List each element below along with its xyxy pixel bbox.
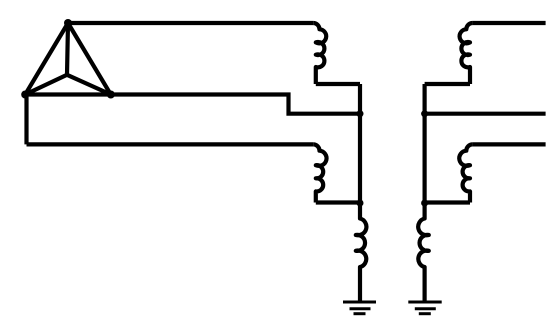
node A (delta top vertex) — [64, 19, 72, 27]
wire phase B middle — [111, 95, 360, 114]
winding L4 (right transformer top winding) — [460, 23, 473, 84]
wire secondary b middle right — [425, 112, 546, 116]
wire secondary a top right — [473, 21, 546, 25]
junction dot right bus upper — [421, 110, 428, 117]
wire phase A top — [68, 21, 313, 25]
wire L1 bottom to bus — [316, 82, 360, 86]
wire L2 bottom to bus — [316, 200, 360, 204]
junction dot left bus lower — [357, 200, 364, 207]
wire L4 bottom to right bus — [425, 82, 470, 86]
node C (delta bottom-left vertex) — [21, 91, 29, 99]
wire left bus vertical — [358, 84, 362, 203]
winding L3 (left grounding winding) — [356, 203, 367, 301]
delta internal spokes — [25, 23, 111, 95]
wire secondary c bottom right — [473, 142, 546, 146]
junction dot left bus / phase B — [357, 110, 364, 117]
winding L2 (left transformer bottom primary) — [313, 144, 326, 202]
winding L6 (right grounding winding) — [418, 203, 429, 301]
node B (delta bottom-right vertex) — [107, 91, 115, 99]
winding L1 (left transformer top primary) — [313, 23, 326, 84]
wire phase C bottom — [27, 93, 314, 145]
ground left — [343, 302, 376, 314]
delta source winding D1 — [25, 23, 111, 95]
winding L5 (right transformer bottom winding) — [459, 144, 472, 202]
junction dot right bus lower — [421, 200, 428, 207]
wire L5 bottom to right bus — [425, 200, 470, 204]
ground right — [408, 302, 441, 314]
wire right bus vertical — [423, 84, 427, 203]
